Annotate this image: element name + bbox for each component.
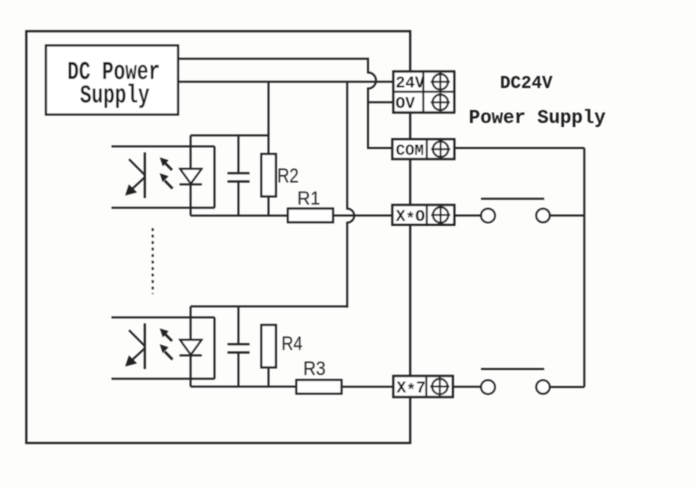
terminal screw 24V [431, 72, 450, 91]
dashed continuation line [152, 228, 154, 294]
optocoupler output-side top wire (lower) [112, 316, 215, 318]
top rail wire (lower) [191, 305, 348, 307]
optocoupler output-side bottom wire (upper) [112, 207, 215, 209]
svg-text:COM: COM [396, 142, 424, 160]
wire switch SW7 to common bus [550, 386, 585, 388]
wire COM to switch common bus [454, 147, 584, 149]
terminal screw X*7 [430, 377, 449, 396]
switch SW7 contact a [481, 380, 495, 394]
terminal screw 0V [431, 93, 450, 112]
capacitor bottom stub (upper) [237, 182, 239, 216]
wire from 24V rail down to R2/upper network [268, 82, 270, 155]
LED triangle (lower) [180, 340, 201, 355]
terminal block 24V/0V divider [393, 91, 454, 93]
wire R1 to X*0 terminal [333, 215, 394, 217]
svg-text:R3: R3 [303, 357, 325, 379]
switch SW7 contact b [536, 380, 549, 393]
terminal screw X*0 [431, 205, 450, 224]
resistor R2 [261, 154, 276, 196]
light arrow 1 (upper) [160, 157, 172, 170]
light arrow 2 (upper) [160, 173, 173, 188]
svg-text:X*7: X*7 [397, 380, 426, 401]
capacitor plates (lower) [228, 343, 250, 345]
terminal block X*0 divider [426, 205, 428, 225]
terminal block 24V/0V body [393, 72, 454, 113]
svg-text:Power Supply: Power Supply [469, 107, 606, 129]
optocoupler output-side bottom wire (lower) [112, 378, 215, 380]
wire X*0 to switch [454, 215, 481, 217]
R4 bottom stub [268, 367, 270, 386]
LED cathode wire (lower) [190, 355, 192, 386]
terminal block X*0 body [392, 205, 454, 225]
DC Power Supply box [46, 46, 178, 115]
capacitor bottom stub (lower) [237, 353, 239, 387]
svg-text:X*O: X*O [396, 208, 425, 229]
wire from 24V rail down to lower network (with crossover hop) [347, 82, 354, 308]
switch common bus vertical wire [583, 148, 585, 387]
bottom rail wire (lower) [191, 386, 297, 388]
wire branch to 0V terminal [368, 101, 394, 103]
LED anode wire (lower) [190, 306, 192, 340]
capacitor top stub (lower) [237, 306, 239, 344]
switch SW7 actuator bar [481, 368, 544, 370]
optocoupler box right edge (lower) [214, 317, 216, 378]
optocoupler output-side top wire (upper) [112, 145, 215, 147]
top rail wire (upper) [191, 134, 269, 136]
svg-text:OV: OV [396, 95, 416, 113]
terminal block COM body [392, 139, 454, 159]
resistor R3 [296, 380, 341, 394]
optocoupler box right edge (upper) [214, 146, 216, 207]
phototransistor (upper) [125, 152, 145, 198]
bottom rail wire (upper) [191, 215, 288, 217]
wire from DC supply upper output to 0V/COM (with crossover hop) [178, 59, 393, 148]
resistor R4 [261, 325, 276, 367]
light arrow 1 (lower) [160, 328, 172, 341]
R2 bottom stub [268, 196, 270, 215]
LED triangle (upper) [180, 169, 201, 184]
svg-text:R4: R4 [282, 333, 303, 355]
resistor R1 [288, 209, 333, 223]
svg-text:24V: 24V [396, 75, 425, 93]
terminal block X*7 divider [425, 376, 427, 397]
terminal block COM divider [426, 139, 428, 159]
wire R3 to X*7 terminal [342, 386, 395, 388]
wire X*7 to switch [453, 386, 481, 388]
capacitor plates (upper) [228, 172, 250, 174]
LED cathode bar (upper) [180, 183, 202, 185]
capacitor top stub (upper) [237, 135, 239, 173]
LED cathode wire (upper) [190, 184, 192, 215]
svg-text:DC24V: DC24V [500, 74, 553, 95]
light arrow 2 (lower) [160, 344, 173, 359]
LED anode wire (upper) [190, 135, 192, 169]
wire switch SW0 to common bus [550, 215, 585, 217]
LED cathode bar (lower) [180, 354, 202, 356]
svg-text:R2: R2 [277, 164, 298, 187]
PLC enclosure outline [26, 31, 410, 443]
switch SW0 contact a [481, 209, 495, 223]
terminal block X*7 body [393, 376, 452, 397]
DC Power Supply label [67, 57, 160, 110]
svg-text:R1: R1 [297, 189, 320, 209]
switch SW0 actuator bar [481, 198, 544, 200]
wire from DC supply lower output to 24V terminal [178, 81, 394, 83]
phototransistor (lower) [125, 323, 145, 369]
svg-text:Supply: Supply [80, 81, 150, 110]
terminal screw COM [431, 140, 450, 159]
switch SW0 contact b [536, 209, 549, 222]
